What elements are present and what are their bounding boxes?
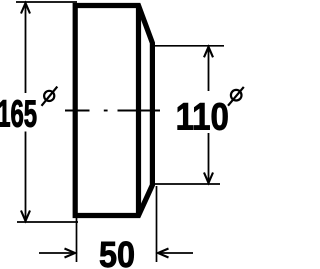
dimension line 110 lower segment	[208, 133, 210, 183]
arrowhead 110 bottom	[204, 173, 213, 184]
svg-text:165: 165	[0, 92, 37, 135]
arrowhead 165 top	[21, 3, 30, 14]
centerline dash 2	[118, 110, 161, 112]
diameter symbol for 165: circle	[44, 91, 54, 101]
svg-text:50: 50	[99, 235, 135, 269]
extension line top (165)	[16, 1, 77, 3]
extension line bottom (165)	[17, 221, 78, 223]
dimension line 165 upper segment	[25, 3, 27, 93]
extension line top (110)	[154, 45, 224, 47]
diameter symbol for 110: circle	[231, 90, 242, 101]
dimension arrow 50 left (pointing right)	[39, 252, 75, 254]
centerline dot	[104, 110, 108, 112]
centerline dash 1	[65, 110, 90, 112]
extension line right (50)	[156, 186, 158, 262]
body outline (pipe cap cross-section, thick)	[75, 6, 152, 216]
diameter symbol for 165: slash	[42, 87, 58, 106]
dimension line 165 lower segment	[25, 132, 27, 222]
extension line bottom (110)	[153, 183, 220, 185]
extension line left (50)	[76, 218, 78, 262]
arrowhead 165 bottom	[21, 211, 30, 222]
diameter symbol for 110: slash	[228, 87, 244, 106]
arrowhead 110 top	[204, 47, 213, 58]
dimension line 110 upper segment	[208, 47, 210, 91]
joint line (right edge of cylindrical body)	[136, 6, 141, 216]
dimension arrow 50 right (pointing left)	[159, 252, 194, 254]
svg-text:110: 110	[176, 95, 229, 138]
